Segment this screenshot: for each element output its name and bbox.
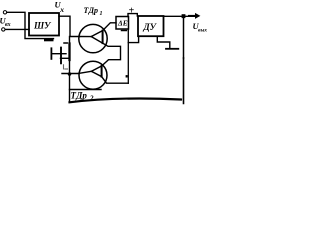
svg-text:2: 2	[89, 95, 94, 103]
svg-text:ДУ: ДУ	[143, 22, 158, 32]
svg-text:ΔЕ: ΔЕ	[117, 19, 128, 28]
svg-text:ТДр: ТДр	[71, 91, 88, 101]
svg-text:вх: вх	[5, 22, 11, 28]
svg-text:+: +	[129, 6, 135, 17]
svg-text:ШУ: ШУ	[33, 21, 52, 31]
svg-text:x: x	[59, 5, 64, 14]
svg-text:ТДр: ТДр	[84, 6, 99, 15]
svg-text:вых: вых	[198, 28, 207, 34]
svg-text:1: 1	[100, 11, 103, 17]
